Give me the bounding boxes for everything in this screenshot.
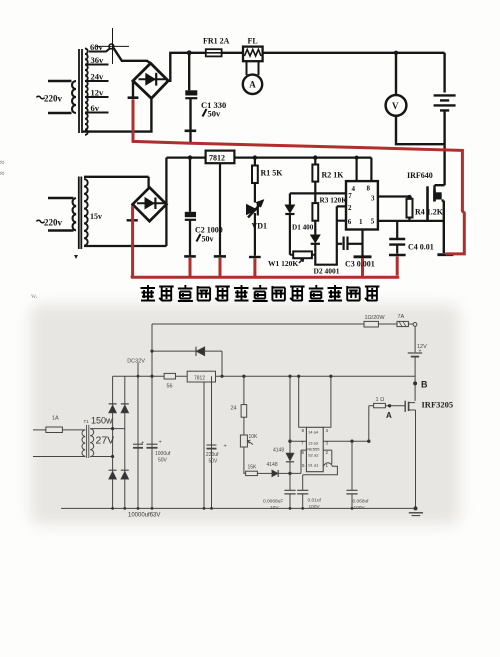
svg-text:100V: 100V — [354, 505, 366, 511]
svg-text:V: V — [392, 101, 399, 111]
svg-text:5: 5 — [302, 463, 305, 468]
svg-text:27V: 27V — [96, 435, 115, 447]
svg-text:10K: 10K — [249, 434, 259, 440]
svg-text:W1 120K: W1 120K — [268, 259, 298, 268]
svg-text:4: 4 — [326, 428, 329, 433]
svg-text:24v: 24v — [91, 72, 105, 82]
svg-text:0.068uf: 0.068uf — [353, 499, 370, 505]
svg-text:4148: 4148 — [267, 462, 278, 468]
svg-text:1 Ω: 1 Ω — [376, 397, 385, 403]
svg-text:IRF640: IRF640 — [407, 171, 433, 180]
svg-text:8: 8 — [302, 428, 305, 433]
svg-text:1A: 1A — [52, 416, 59, 422]
svg-text:12v: 12v — [91, 88, 105, 98]
svg-text:+: + — [419, 349, 422, 355]
svg-text:FL: FL — [248, 37, 258, 46]
svg-text:4148: 4148 — [273, 448, 284, 454]
svg-text:50V: 50V — [158, 458, 168, 464]
svg-text:A: A — [249, 80, 256, 90]
svg-text:100V: 100V — [309, 504, 321, 510]
svg-text:B: B — [421, 380, 428, 390]
svg-text:+: + — [141, 441, 144, 447]
svg-text:10V: 10V — [270, 505, 279, 511]
svg-text:IRF3205: IRF3205 — [422, 400, 454, 410]
svg-text:D2 4001: D2 4001 — [314, 267, 340, 276]
svg-text:0.0068uF: 0.0068uF — [263, 499, 283, 505]
svg-text:6v: 6v — [91, 103, 100, 113]
svg-text:220v: 220v — [44, 218, 63, 228]
svg-text:7812: 7812 — [194, 376, 205, 382]
svg-text:1: 1 — [359, 218, 363, 226]
svg-text:R2 1K: R2 1K — [322, 171, 345, 180]
svg-text:S1 a1: S1 a1 — [308, 463, 319, 468]
svg-text:56: 56 — [167, 384, 173, 390]
svg-text:14 a4: 14 a4 — [308, 430, 319, 435]
svg-text:3: 3 — [371, 195, 375, 203]
svg-text:60v: 60v — [90, 42, 104, 52]
svg-text:S2 a2: S2 a2 — [308, 453, 319, 458]
svg-text:6: 6 — [348, 218, 352, 226]
svg-text:6: 6 — [302, 450, 305, 455]
svg-text:7: 7 — [348, 192, 352, 200]
svg-text:≈: ≈ — [0, 169, 5, 178]
svg-text:NE555: NE555 — [307, 447, 320, 452]
svg-text:13 a3: 13 a3 — [308, 441, 319, 446]
svg-text:≈: ≈ — [0, 158, 5, 167]
svg-text:36v: 36v — [91, 55, 105, 65]
svg-text:24: 24 — [231, 406, 237, 412]
svg-text:15K: 15K — [248, 465, 258, 471]
svg-text:+: + — [224, 444, 227, 450]
svg-text:50v: 50v — [202, 235, 214, 244]
svg-text:8: 8 — [367, 185, 371, 193]
svg-text:10000uf63V: 10000uf63V — [128, 513, 160, 519]
svg-text:VD1: VD1 — [252, 222, 268, 231]
svg-text:R3 120K: R3 120K — [320, 196, 348, 205]
svg-text:4: 4 — [352, 185, 356, 193]
svg-text:A: A — [386, 411, 392, 420]
svg-text:220uf: 220uf — [206, 452, 219, 458]
svg-text:DC32V: DC32V — [127, 359, 145, 365]
svg-text:C2 1000: C2 1000 — [195, 226, 223, 235]
svg-text:220v: 220v — [44, 94, 63, 104]
svg-text:T1: T1 — [84, 419, 90, 424]
svg-text:7A: 7A — [398, 314, 405, 320]
svg-text:FR1 2A: FR1 2A — [203, 37, 230, 46]
svg-text:D1 4001: D1 4001 — [292, 224, 317, 232]
svg-text:2: 2 — [348, 204, 352, 212]
svg-text:5: 5 — [371, 218, 375, 226]
svg-text:150w: 150w — [91, 416, 113, 426]
svg-text:1000uf: 1000uf — [155, 451, 171, 457]
svg-text:15v: 15v — [90, 212, 102, 221]
svg-text:50v: 50v — [208, 109, 222, 119]
svg-text:R4 1.2K: R4 1.2K — [415, 208, 444, 217]
svg-text:C3 0.001: C3 0.001 — [345, 260, 375, 269]
svg-text:R1 5K: R1 5K — [261, 169, 284, 178]
svg-text:7812: 7812 — [209, 154, 225, 163]
svg-text:+: + — [159, 440, 162, 446]
svg-text:C4 0.01: C4 0.01 — [408, 243, 434, 252]
svg-text:1: 1 — [326, 463, 329, 468]
svg-text:2: 2 — [326, 450, 329, 455]
svg-text:0.01uf: 0.01uf — [308, 498, 322, 504]
svg-text:50V: 50V — [209, 459, 219, 465]
svg-text:w.: w. — [31, 292, 38, 300]
svg-text:1Ω/20W: 1Ω/20W — [365, 315, 386, 321]
